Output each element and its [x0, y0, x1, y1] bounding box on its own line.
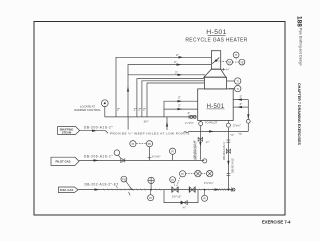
svg-text:2″: 2″: [188, 111, 191, 115]
weep leg 2: [166, 117, 168, 130]
wire riser 2: [128, 65, 211, 117]
heater transition trapezoid: [204, 69, 226, 77]
svg-text:PI: PI: [171, 150, 174, 154]
box right outlet wire lower: [233, 106, 248, 108]
svg-text:1¼″: 1¼″: [144, 119, 149, 123]
svg-text:¾″: ¾″: [226, 68, 230, 72]
fuel flow arrow: [95, 188, 100, 190]
svg-text:PI: PI: [203, 197, 206, 201]
svg-text:½″: ½″: [239, 132, 243, 136]
svg-text:FUEL GAS: FUEL GAS: [60, 188, 74, 192]
snuffing flow arrow: [92, 130, 97, 132]
svg-text:2″: 2″: [240, 102, 243, 106]
globe valve x right: [207, 170, 213, 176]
burner feed wire lower: [164, 108, 198, 110]
break squiggle: [184, 132, 189, 133]
snuffing wire continue: [188, 130, 248, 132]
wire riser 4: [137, 79, 205, 117]
snuffing steam connector: [58, 127, 80, 135]
pilot drop wire: [199, 131, 201, 159]
svg-text:PC: PC: [148, 142, 152, 146]
PI bubble above station: [180, 171, 186, 177]
feed arrow lower: [178, 108, 183, 110]
right drop lower wire: [247, 123, 249, 131]
svg-text:DB-204-A1S-¾″: DB-204-A1S-¾″: [222, 141, 226, 160]
instrument bubble pair left: [227, 59, 233, 65]
svg-text:TI: TI: [235, 53, 238, 57]
flange ticks: [227, 139, 231, 141]
TI bubble with leader: [121, 176, 127, 182]
svg-text:DB-207-A1S: DB-207-A1S: [230, 158, 234, 173]
svg-text:1½″x¾″: 1½″x¾″: [204, 181, 214, 185]
manifold end union fitting: [190, 115, 193, 118]
bypass loop: [164, 190, 198, 203]
pilot gas wire: [79, 159, 204, 161]
pilot reducer: [121, 158, 125, 162]
svg-text:PI: PI: [181, 172, 184, 176]
svg-text:2″: 2″: [240, 95, 243, 99]
svg-text:2″: 2″: [175, 70, 178, 74]
svg-text:DB-202-A1S-2″-ET: DB-202-A1S-2″-ET: [85, 183, 119, 187]
right drop valve circle: [246, 119, 250, 123]
regulator station flanges 2: [188, 187, 190, 193]
tee tick: [148, 156, 152, 158]
tick mark: [129, 192, 131, 195]
junction dot fuel drop: [228, 189, 230, 191]
stack damper blade: [212, 58, 219, 64]
globe valve x left: [195, 170, 201, 176]
flow arrow line3: [178, 74, 183, 76]
svg-text:188: 188: [296, 16, 303, 27]
svg-text:RECYCLE GAS HEATER: RECYCLE GAS HEATER: [185, 37, 247, 43]
heater firebox H-501 box: [198, 89, 234, 121]
pilot end circle: [203, 159, 207, 163]
svg-text:CHAPTER 7 DRAWING EXERCISES: CHAPTER 7 DRAWING EXERCISES: [297, 83, 301, 145]
heat trace ticks: [215, 188, 232, 190]
pilot gas connector: [51, 157, 79, 165]
stem to body: [227, 80, 235, 82]
instrument bubble PCV: [146, 141, 152, 147]
svg-text:PROVIDE ¼″ WEEP HOLES AT LOW P: PROVIDE ¼″ WEEP HOLES AT LOW POINTS: [110, 132, 190, 136]
snuffing steam wire: [80, 130, 104, 132]
fuel drop wire: [227, 128, 229, 190]
heater body: [204, 77, 226, 89]
PCV stem: [149, 147, 151, 161]
riser2 up arrow: [127, 87, 129, 92]
svg-text:TI: TI: [237, 79, 240, 83]
PI bubble below fuel line: [148, 195, 154, 201]
svg-text:DB-206-A1S-1″: DB-206-A1S-1″: [84, 154, 113, 158]
pilot strainer circle: [114, 150, 120, 156]
border frame: [34, 22, 285, 216]
dashed link: [136, 143, 146, 145]
bypass valve: [181, 201, 184, 205]
svg-text:PILOT GAS: PILOT GAS: [55, 160, 70, 164]
right drop down arrow: [247, 114, 249, 119]
heat trace ticks along fuel line: [104, 189, 214, 191]
instrument bubble pair right: [239, 59, 245, 65]
svg-text:¾″x½″: ¾″x½″: [185, 121, 194, 125]
fuel drop down arrow: [227, 161, 229, 166]
instrument bubble PI right: [170, 148, 176, 154]
svg-text:¾″: ¾″: [183, 205, 187, 209]
actuator dashed: [177, 176, 181, 186]
weep leg up arrow: [166, 122, 168, 127]
fuel gas wire: [78, 189, 233, 191]
valve right under box: [227, 121, 229, 124]
fuel gas connector: [59, 187, 79, 193]
svg-text:PI: PI: [171, 178, 174, 182]
stack vent stub 3/4": [222, 68, 226, 70]
dashed link: [186, 173, 195, 175]
svg-text:TI: TI: [237, 87, 240, 91]
svg-text:PI: PI: [149, 196, 152, 200]
instrument bubble on body upper: [235, 78, 241, 84]
bubble stem: [104, 107, 106, 117]
damper control bubble HC: [101, 100, 108, 107]
right drop wire: [247, 100, 249, 120]
bubble pair dashed link: [233, 61, 239, 63]
svg-text:TR: TR: [228, 60, 232, 64]
stem: [172, 154, 174, 160]
dashed link pair: [201, 173, 206, 175]
instrument bubble PI left: [130, 141, 136, 147]
bubble stem dash: [235, 58, 237, 60]
svg-text:2″: 2″: [178, 104, 181, 108]
svg-text:Pipe Drafting and Design: Pipe Drafting and Design: [299, 28, 303, 66]
svg-text:2″: 2″: [174, 60, 177, 64]
wire line 3 to trapezoid: [128, 74, 205, 76]
instrument bubble TI stack top: [233, 52, 239, 58]
fuel end fitting: [231, 187, 233, 192]
arrow left lower: [237, 106, 242, 108]
svg-text:EXERCISE 7-4: EXERCISE 7-4: [262, 220, 291, 225]
svg-text:½″: ½″: [230, 133, 234, 137]
svg-text:STEAM: STEAM: [62, 131, 72, 135]
plug valve fuel: [148, 177, 154, 183]
pilot flow arrow: [94, 159, 99, 161]
svg-text:TW: TW: [122, 178, 127, 181]
instrument bubble PC left of station: [170, 177, 176, 183]
fuel drop valve: [226, 149, 230, 153]
svg-text:DAMPER CONTROL: DAMPER CONTROL: [74, 108, 101, 112]
flow arrow line1: [179, 56, 184, 58]
burner manifold wire: [105, 116, 196, 118]
svg-text:2″: 2″: [176, 53, 179, 57]
snuffing jog: [104, 131, 108, 134]
svg-text:PI: PI: [132, 142, 135, 146]
instrument bubble on body lower: [235, 85, 241, 91]
box right outlet wire upper: [233, 99, 248, 101]
svg-text:1¼″x1″: 1¼″x1″: [172, 195, 181, 199]
svg-text:DB-200-A1S-2″: DB-200-A1S-2″: [84, 125, 113, 129]
heater H-501 stack: [211, 51, 220, 69]
wire riser 1 outer: [116, 57, 211, 117]
stem to box corner: [229, 88, 235, 90]
regulator station flanges 1: [171, 187, 173, 193]
svg-text:TO PILOT: TO PILOT: [205, 120, 218, 124]
wire riser 5: [142, 81, 205, 117]
snuffing arrow 2: [209, 130, 214, 132]
fuel flow arrow 2: [215, 188, 220, 190]
wire riser 6: [147, 83, 204, 117]
pilot valve left under box: [200, 121, 202, 122]
svg-text:¾″: ¾″: [206, 140, 210, 144]
flow arrow line2: [177, 63, 182, 65]
burner feed wire upper: [164, 101, 198, 117]
svg-text:¾″x½″: ¾″x½″: [152, 155, 161, 159]
svg-text:DB-203-A1S-¾″: DB-203-A1S-¾″: [194, 141, 198, 160]
pilot drop down arrow: [199, 142, 201, 147]
svg-text:2″: 2″: [178, 96, 181, 100]
feed arrow upper: [178, 100, 183, 102]
drip bubble: [202, 195, 208, 201]
svg-text:2″x¾″: 2″x¾″: [233, 123, 241, 127]
pilot drop gate valve: [198, 137, 203, 141]
damper signal dashed line: [217, 60, 226, 63]
weep leg 1: [127, 117, 129, 130]
arrow left upper: [237, 98, 242, 100]
damper pivot dot: [215, 60, 217, 62]
flange ticks lower: [227, 172, 231, 174]
svg-text:TE: TE: [240, 60, 244, 64]
